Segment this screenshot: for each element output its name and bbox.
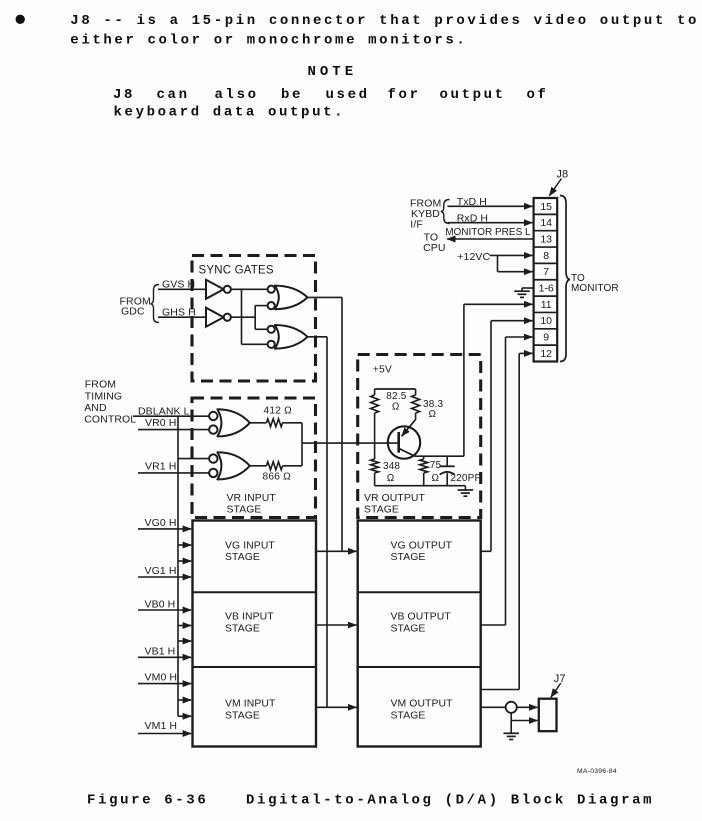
resistor R6 75 ohm [420, 459, 428, 473]
bullet [16, 15, 25, 24]
inverter U1b [206, 308, 224, 327]
svg-text:keyboard data output.: keyboard data output. [114, 104, 346, 120]
wire 75 top stub [423, 456, 425, 459]
svg-text:VG INPUT: VG INPUT [225, 540, 275, 551]
wire pin 13 to CPU [447, 238, 534, 240]
svg-text:7: 7 [543, 266, 549, 278]
svg-text:82.5: 82.5 [386, 391, 407, 402]
sync gates dashed box [192, 256, 316, 382]
svg-text:TIMING: TIMING [85, 391, 122, 403]
wire VG0 H [138, 528, 191, 530]
wire 348 bottom stub [374, 473, 376, 486]
wire into pin 9 [506, 336, 533, 338]
wire R2 to join [283, 465, 303, 467]
svg-text:VB INPUT: VB INPUT [225, 612, 274, 623]
svg-text:MA-0396-84: MA-0396-84 [577, 768, 617, 775]
wire VB1 H [138, 656, 191, 658]
wire 38.3 stub [415, 389, 417, 395]
connector J8 box [534, 198, 558, 362]
svg-text:STAGE: STAGE [225, 552, 260, 563]
VR input stage dashed box [192, 398, 316, 518]
wire branch to gate U2a lower input [254, 306, 256, 330]
connector J8 cell line 4 [534, 262, 558, 264]
wire TxD H to pin 15 [448, 205, 533, 207]
svg-text:11: 11 [541, 299, 552, 311]
connector J8 cell line 5 [534, 279, 558, 281]
NOR gate U3a [217, 409, 249, 436]
inverter U1a [206, 280, 224, 299]
wire +12VC to pin 7 [498, 271, 533, 273]
wire inverter U1b output [231, 316, 255, 318]
svg-text:VR1 H: VR1 H [145, 461, 176, 473]
svg-text:9: 9 [543, 332, 549, 344]
connector J8 cell line 2 [534, 230, 558, 232]
connector J8 cell line 1 [534, 213, 558, 215]
divider VG/VB output [358, 591, 481, 593]
svg-text:AND: AND [84, 402, 107, 414]
svg-text:+5V: +5V [373, 365, 392, 376]
svg-text:either color or monochrome mon: either color or monochrome monitors. [70, 32, 467, 48]
svg-text:12: 12 [540, 348, 552, 360]
wire VG input to VG output [316, 550, 356, 552]
svg-text:VM1 H: VM1 H [145, 720, 178, 732]
svg-text:FROM: FROM [85, 378, 116, 390]
transistor Q1 base bar [397, 432, 400, 453]
svg-text:used: used [326, 87, 370, 103]
wire bus arrow 5 into VM input [178, 699, 191, 701]
svg-text:CONTROL: CONTROL [84, 414, 136, 426]
wire pin 12 vertical [518, 353, 520, 689]
svg-text:STAGE: STAGE [225, 624, 260, 635]
wire VB0 H [138, 609, 191, 611]
wire left rail mid [374, 413, 376, 459]
svg-text:MONITOR PRES L: MONITOR PRES L [445, 227, 531, 238]
resistor R1 412 ohm [267, 419, 283, 427]
connector J8 cell line 6 [534, 295, 558, 297]
divider VG/VB input [193, 591, 317, 593]
svg-text:STAGE: STAGE [364, 504, 399, 515]
wire U3b output [250, 465, 267, 467]
connector J8 cell line 8 [534, 328, 558, 330]
svg-text:Ω: Ω [432, 473, 440, 484]
svg-text:output: output [440, 87, 506, 103]
svg-text:13: 13 [540, 233, 552, 245]
svg-text:220PF: 220PF [450, 473, 480, 484]
wire +12VC branch down [497, 255, 499, 271]
wire DBLANK L [133, 415, 209, 417]
svg-text:GDC: GDC [121, 306, 145, 318]
brace for FROM GDC [151, 285, 160, 323]
arrow J7 label to connector [551, 683, 561, 697]
connector J8 cell line 7 [534, 311, 558, 313]
wire into pin 11 [464, 303, 533, 305]
brace FROM KYBD [441, 200, 450, 224]
svg-text:MONITOR: MONITOR [571, 283, 619, 294]
node circle [506, 702, 517, 713]
wire U2a output to vertical [308, 296, 343, 298]
wire bottom rail [375, 485, 466, 487]
svg-text:can: can [157, 87, 190, 103]
svg-text:STAGE: STAGE [391, 552, 426, 563]
svg-text:15: 15 [540, 201, 552, 213]
connector J7 box [539, 699, 557, 732]
wire into pin 10 [491, 320, 532, 322]
svg-text:VM OUTPUT: VM OUTPUT [391, 698, 454, 709]
svg-text:STAGE: STAGE [227, 504, 262, 515]
svg-text:SYNC GATES: SYNC GATES [199, 265, 274, 277]
svg-text:Ω: Ω [429, 409, 437, 420]
NOR gate U2a [275, 286, 308, 310]
svg-text:VG1 H: VG1 H [145, 565, 177, 577]
wire branch to gate U2b upper input [255, 328, 267, 330]
wire DBLANK L bus vertical [177, 416, 179, 716]
svg-text:412 Ω: 412 Ω [264, 406, 293, 417]
wire join vertical [301, 423, 303, 466]
wire bus arrow 3 into VB input [178, 625, 191, 627]
wire collector lead [399, 449, 415, 457]
wire VB input to VB output [316, 624, 356, 626]
svg-text:J7: J7 [554, 673, 566, 685]
svg-text:STAGE: STAGE [391, 624, 426, 635]
svg-text:VG OUTPUT: VG OUTPUT [391, 540, 453, 551]
svg-text:STAGE: STAGE [391, 711, 426, 722]
svg-text:14: 14 [540, 217, 552, 229]
wire pin 9 vertical [505, 337, 507, 625]
output stages solid box [358, 521, 481, 747]
wire branch to J7 pin 2 [511, 720, 537, 722]
wire VM input to VM output [316, 706, 356, 708]
wire +12VC to pin 8 [490, 254, 533, 256]
svg-text:Figure 6-36: Figure 6-36 [87, 793, 208, 809]
svg-text:VG0 H: VG0 H [145, 517, 177, 529]
wire U2b output to vertical [308, 336, 328, 338]
wire pin 1-6 to ground [522, 287, 534, 289]
ground at pin 1-6 [514, 290, 530, 292]
svg-text:TO: TO [571, 273, 585, 284]
wire GVS H input [158, 288, 206, 290]
capacitor C1 220PF [446, 456, 448, 466]
svg-text:VR0 H: VR0 H [145, 417, 176, 429]
wire +5V top rail [375, 388, 416, 390]
wire U3a output [250, 422, 267, 424]
NOR gate U2b [275, 325, 308, 349]
ground below VR output stage [464, 486, 466, 490]
VR output stage dashed box [358, 355, 481, 518]
svg-text:VM INPUT: VM INPUT [225, 698, 276, 709]
svg-text:VR INPUT: VR INPUT [227, 493, 277, 504]
wire emitter lead with arrow [415, 413, 417, 420]
svg-text:VM0 H: VM0 H [145, 671, 178, 683]
arrow J8 label to connector [549, 179, 561, 196]
wire node down [510, 713, 512, 733]
svg-text:VR OUTPUT: VR OUTPUT [364, 493, 425, 504]
wire VM output to node [481, 706, 506, 708]
wire inverter U1a output to gate U2a [231, 288, 267, 290]
svg-text:NOTE: NOTE [308, 64, 358, 80]
svg-text:J8: J8 [556, 168, 568, 180]
svg-text:I/F: I/F [410, 218, 423, 230]
resistor R4 38.3 ohm [412, 395, 420, 413]
wire DBLANK branch to gate U3b [178, 458, 209, 460]
wire 75 bottom stub [423, 473, 425, 486]
svg-text:J8 -- is a 15-pin connector th: J8 -- is a 15-pin connector that provide… [70, 13, 699, 29]
svg-text:VB1 H: VB1 H [145, 645, 176, 657]
svg-text:+12VC: +12VC [457, 251, 490, 263]
transistor Q1 [388, 426, 420, 458]
wire bus arrow 4 into VB input [178, 640, 191, 642]
svg-text:J8: J8 [113, 87, 135, 103]
wire RxD H to pin 14 [448, 222, 533, 224]
svg-text:Ω: Ω [387, 473, 395, 484]
wire GHS H input [158, 316, 206, 318]
wire VR0 H [138, 429, 209, 431]
wire collector rail [415, 455, 464, 457]
wire bus arrow 1 into VG input [178, 544, 191, 546]
resistor R5 348 ohm [371, 459, 379, 473]
resistor R3 82.5 ohm [371, 395, 379, 413]
divider VB/VM output [358, 666, 481, 668]
wire left rail upper stub [374, 389, 376, 395]
svg-text:866 Ω: 866 Ω [263, 471, 292, 482]
wire pin 10 vertical [490, 321, 492, 552]
wire VG1 H [138, 576, 191, 578]
svg-text:CPU: CPU [423, 242, 445, 254]
svg-text:348: 348 [383, 461, 400, 472]
input stages solid box [193, 521, 317, 747]
wire bus arrow 2 into VG input [178, 560, 191, 562]
svg-text:10: 10 [540, 315, 552, 327]
wire bus arrow 6 into VM input [178, 715, 191, 717]
connector J8 cell line 9 [534, 344, 558, 346]
wire branch down to gate U2b lower input [241, 289, 243, 344]
svg-text:STAGE: STAGE [225, 711, 260, 722]
wire R1 to join [283, 422, 303, 424]
svg-text:VB0 H: VB0 H [145, 598, 176, 610]
brace TO MONITOR [560, 196, 570, 362]
NOR gate U3b [217, 452, 249, 479]
svg-text:8: 8 [543, 250, 549, 262]
svg-text:for: for [388, 87, 421, 103]
wire VR input output to VR output base [302, 442, 399, 444]
divider VB/VM input [193, 666, 317, 668]
wire node to J7 pin 1 [517, 706, 538, 708]
svg-text:VB OUTPUT: VB OUTPUT [391, 612, 452, 623]
wire into pin 12 [519, 352, 532, 354]
svg-text:also: also [215, 87, 259, 103]
svg-text:1-6: 1-6 [539, 283, 554, 295]
wire VM1 H [138, 733, 191, 735]
svg-text:Digital-to-Analog (D/A) Block: Digital-to-Analog (D/A) Block Diagram [246, 793, 654, 809]
wire VR output to pin 11 [463, 304, 465, 456]
wire VR1 H [138, 472, 209, 474]
ground below node [503, 732, 519, 734]
svg-text:Ω: Ω [392, 402, 400, 413]
svg-text:of: of [527, 87, 549, 103]
wire VM0 H [138, 683, 191, 685]
connector J8 cell line 3 [534, 246, 558, 248]
resistor R2 866 ohm [267, 462, 283, 470]
svg-text:be: be [281, 87, 303, 103]
